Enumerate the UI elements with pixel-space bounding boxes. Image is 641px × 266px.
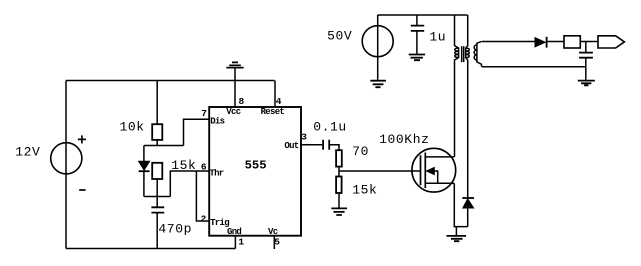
wire to pin 6 Thr <box>170 171 209 197</box>
wire diode branch from transformer <box>467 63 469 197</box>
svg-text:10k: 10k <box>120 119 145 134</box>
svg-text:3: 3 <box>301 132 307 143</box>
voltage source 50V circle <box>362 26 393 57</box>
svg-text:470p: 470p <box>158 222 192 237</box>
mosfet channel bar <box>424 153 426 189</box>
output terminal <box>598 36 624 48</box>
svg-text:4: 4 <box>276 96 282 107</box>
plus sign of 12V source <box>78 135 86 143</box>
minus sign of 12V source <box>79 189 85 191</box>
svg-text:Thr: Thr <box>209 169 223 179</box>
wire 70 to divider junction <box>338 167 340 177</box>
transformer T1 reset winding <box>466 15 470 64</box>
wire pin 1 Gnd to bottom rail <box>234 236 236 249</box>
wire diode to lower junction <box>143 171 145 196</box>
diode D3 <box>535 38 545 47</box>
wire mosfet drain up to transformer <box>454 63 456 157</box>
svg-text:12V: 12V <box>15 145 40 160</box>
svg-text:70: 70 <box>352 144 369 159</box>
svg-text:7: 7 <box>201 108 207 119</box>
wire gate line <box>339 170 421 172</box>
capacitor 1u <box>411 26 424 31</box>
svg-text:1u: 1u <box>429 30 446 45</box>
wire 0.1u to 70 resistor <box>329 145 339 150</box>
svg-text:2: 2 <box>201 214 207 225</box>
diode D3 cathode bar <box>546 37 548 48</box>
wire pin 6 to pin 2 Trig <box>196 171 209 221</box>
wire lower junction <box>144 196 170 198</box>
wire diode branch top <box>143 146 145 162</box>
power flag above pin 8 <box>226 62 243 67</box>
wire top right rail <box>378 14 468 16</box>
svg-text:Dis: Dis <box>210 116 224 126</box>
wire pin 5 Vc stub <box>273 236 275 249</box>
wire output ground stub <box>585 67 587 80</box>
svg-text:5: 5 <box>274 237 280 248</box>
wire from top rail down to 10k <box>156 81 158 125</box>
ground below mosfet <box>455 227 457 236</box>
wire 15k to lower junction <box>156 179 158 197</box>
wire left rail <box>65 81 67 249</box>
wire mosfet source down <box>454 183 467 226</box>
mosfet source line <box>425 182 454 184</box>
wire output cap bottom <box>585 58 587 67</box>
svg-text:Reset: Reset <box>261 107 285 117</box>
wire 470p to bottom rail <box>156 213 158 248</box>
svg-text:0.1u: 0.1u <box>313 120 347 135</box>
svg-text:1: 1 <box>238 237 244 248</box>
wire 10k to junction <box>156 140 158 146</box>
svg-text:Gnd: Gnd <box>227 227 241 237</box>
svg-text:Out: Out <box>284 141 298 151</box>
wire 1u cap top <box>416 15 418 25</box>
svg-text:555: 555 <box>245 159 267 173</box>
load box <box>564 36 580 48</box>
svg-text:Vc: Vc <box>268 227 278 237</box>
mosfet drain line <box>425 156 454 158</box>
wire 15k to ground <box>338 193 340 208</box>
wire output cap top <box>585 42 587 53</box>
resistor 15k left <box>152 163 162 179</box>
diode D1 <box>139 161 150 170</box>
capacitor 0.1u <box>323 140 329 150</box>
ground bars below mosfet <box>447 236 467 241</box>
transformer T1 primary winding <box>455 15 459 64</box>
svg-text:50V: 50V <box>327 29 352 44</box>
svg-text:15k: 15k <box>352 183 377 198</box>
resistor 10k <box>152 124 162 140</box>
capacitor 470p <box>151 207 164 212</box>
svg-text:100Khz: 100Khz <box>379 132 429 147</box>
wire 1u to ground <box>416 31 418 54</box>
mosfet gate bar <box>420 155 422 185</box>
capacitor output <box>579 53 593 58</box>
wire pin 8 Vcc up through rail <box>234 68 236 107</box>
op-amp U1 555 IC body <box>209 107 301 236</box>
ground below 50V <box>370 81 386 88</box>
wire pin 3 Out <box>301 144 322 146</box>
wire junction to 470p <box>156 197 158 208</box>
wire bottom rail <box>66 248 235 250</box>
wire secondary bottom <box>482 66 586 68</box>
diode D2 <box>463 199 474 208</box>
ground output <box>578 81 595 86</box>
mosfet body line <box>430 171 438 183</box>
ground below 1u <box>409 55 425 61</box>
wire secondary top <box>482 41 535 43</box>
svg-text:Vcc: Vcc <box>226 107 240 117</box>
resistor 15k divider <box>336 177 342 194</box>
resistor 70 <box>336 150 342 166</box>
wire pin 4 Reset to top rail <box>274 81 276 108</box>
transformer T1 secondary winding <box>474 41 481 66</box>
wire to pin 7 Dis <box>184 119 210 145</box>
ground below 15k <box>331 208 347 215</box>
wire top rail <box>66 80 275 82</box>
wire diode D2 to ground <box>467 208 469 227</box>
svg-text:8: 8 <box>239 96 245 107</box>
svg-text:6: 6 <box>201 162 207 173</box>
wire junction below 10k <box>144 145 184 147</box>
wire load box to output <box>580 41 598 43</box>
transformer T1 core <box>462 46 464 62</box>
mosfet body arrow <box>426 167 434 174</box>
transistor Q1 mosfet circle <box>412 148 456 192</box>
voltage source V1 12V circle <box>51 143 82 174</box>
wire diode D3 to load box <box>548 41 564 43</box>
diode D2 cathode bar <box>462 197 474 199</box>
diode D1 cathode bar <box>139 170 150 172</box>
wire through 50V source <box>377 15 379 80</box>
